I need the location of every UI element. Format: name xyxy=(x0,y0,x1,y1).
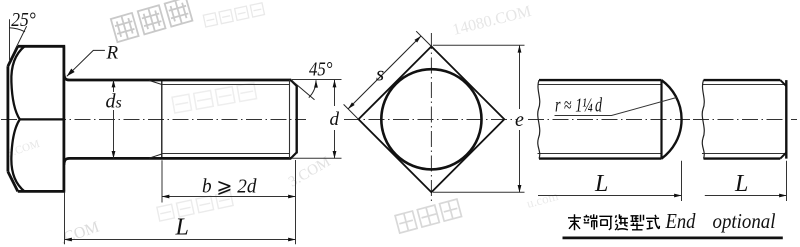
head face arc lower xyxy=(11,119,24,191)
rod2 break wavy line xyxy=(702,80,704,159)
watermark block B: small text top xyxy=(203,3,264,27)
rod2 major top xyxy=(704,79,781,81)
e dim extension top xyxy=(433,44,525,46)
d dimension line xyxy=(334,80,336,106)
caption chinese: 型 xyxy=(631,215,644,230)
thread end chamfer circle line xyxy=(289,80,291,158)
caption chinese: 式 xyxy=(646,215,659,229)
centerline rod1 xyxy=(528,119,690,121)
r leader underline xyxy=(555,98,677,116)
thread minor line top xyxy=(162,84,290,86)
centerline bolt axis xyxy=(1,119,306,121)
rod2 end chamfer slant top xyxy=(780,80,786,86)
rod2 end face xyxy=(785,80,787,159)
R leader xyxy=(67,50,105,76)
watermark block C: faint chars in thread xyxy=(172,83,257,113)
centerline rod2 xyxy=(693,119,797,121)
svg-text:optional: optional xyxy=(713,209,776,233)
thread end face xyxy=(296,85,298,153)
rod2 minor bottom xyxy=(702,153,786,155)
shank top line with fillet xyxy=(64,74,291,81)
d dim extension top xyxy=(292,79,342,81)
rod1 minor top xyxy=(538,84,662,86)
centerline vertical xyxy=(430,33,432,201)
ds dimension line xyxy=(113,80,115,92)
svg-text:d: d xyxy=(330,109,340,130)
rod1 major top xyxy=(539,79,662,81)
shank bottom line with fillet xyxy=(64,158,291,165)
e dimension line xyxy=(519,45,521,109)
caption chinese: 可 xyxy=(599,216,612,230)
25 deg: vertical extension line xyxy=(9,19,11,60)
rod1 dome tangent line xyxy=(660,80,662,159)
25 deg: angle arc xyxy=(9,28,25,32)
centerline horizontal xyxy=(344,119,517,121)
svg-text:L: L xyxy=(734,171,748,197)
rod1 L extension xyxy=(681,161,683,201)
caption underline xyxy=(563,236,783,239)
head corner edge line xyxy=(20,118,64,120)
svg-text:b ⩾ 2d: b ⩾ 2d xyxy=(202,176,257,198)
b dim extension right xyxy=(295,160,297,244)
thread runout slant top xyxy=(149,80,162,84)
d dim extension bottom xyxy=(292,157,342,159)
svg-text:3.COM: 3.COM xyxy=(286,154,333,191)
rod2 end chamfer slant bottom xyxy=(780,153,786,159)
svg-text:14080.COM: 14080.COM xyxy=(451,3,533,39)
thread end chamfer slant bottom xyxy=(291,152,297,158)
45 deg: angle arc with arrow xyxy=(309,80,316,97)
svg-text:45°: 45° xyxy=(309,59,333,81)
svg-text:ds: ds xyxy=(106,91,122,113)
svg-text:25°: 25° xyxy=(11,9,36,31)
thread start line xyxy=(161,80,163,158)
head face arc upper xyxy=(11,46,24,119)
caption chinese: 选 xyxy=(615,214,628,230)
rod1 L dimension line xyxy=(538,195,682,197)
b dimension line xyxy=(162,196,296,198)
rod1 break wavy line xyxy=(538,80,540,159)
rod2 minor top xyxy=(702,84,786,86)
watermark block G: chars bottom below square xyxy=(395,199,461,233)
thread runout slant bottom xyxy=(149,154,162,158)
watermark block A: big chars top-left xyxy=(111,0,193,42)
svg-text:s: s xyxy=(376,62,384,86)
watermark block F: faint chars above L xyxy=(157,192,233,221)
e dim extension bottom xyxy=(433,191,525,193)
svg-text:r ≈ 1¼d: r ≈ 1¼d xyxy=(555,95,603,117)
rod2 L dimension line xyxy=(705,195,787,197)
s dim extension from top corner xyxy=(416,31,431,46)
L dim extension left xyxy=(64,193,66,245)
svg-text:L: L xyxy=(175,215,189,241)
rod2 L extension xyxy=(786,161,788,201)
b dim extension left xyxy=(161,160,163,202)
s dimension line xyxy=(348,36,421,109)
rod1 major bottom xyxy=(539,157,662,159)
head outline xyxy=(8,46,65,191)
L dimension line (left view) xyxy=(65,239,296,241)
caption chinese: 末 xyxy=(568,214,581,230)
svg-text:L: L xyxy=(594,171,608,197)
s dim extension from left corner xyxy=(344,104,359,119)
rod2 major bottom xyxy=(704,157,781,159)
rod1 dome arc xyxy=(662,80,682,159)
thread end chamfer slant top xyxy=(291,80,297,86)
svg-text:u.com: u.com xyxy=(525,188,560,211)
svg-text:e: e xyxy=(515,109,524,131)
45 deg: chamfer extension line xyxy=(292,80,315,100)
inscribed circle xyxy=(381,69,481,169)
25 deg: chamfer extension line xyxy=(15,26,27,50)
square head outline xyxy=(359,46,505,192)
caption chinese: 端 xyxy=(584,214,598,230)
rod1 minor bottom xyxy=(538,153,662,155)
thread minor line bottom xyxy=(162,153,290,155)
svg-text:R: R xyxy=(106,43,119,64)
svg-text:End: End xyxy=(665,209,696,233)
